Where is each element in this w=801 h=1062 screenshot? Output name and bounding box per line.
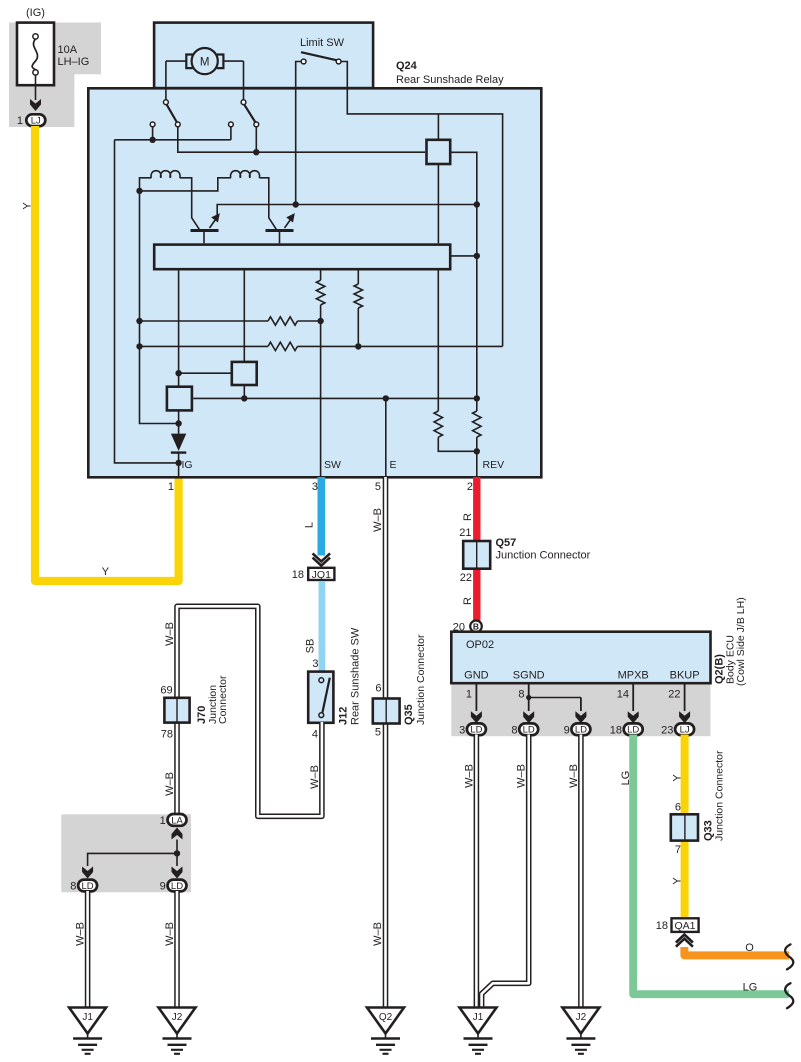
svg-text:W–B: W–B xyxy=(372,922,384,946)
svg-text:R: R xyxy=(462,597,474,605)
svg-text:Junction Connector: Junction Connector xyxy=(714,750,726,841)
svg-text:E: E xyxy=(390,459,397,471)
svg-text:GND: GND xyxy=(464,670,489,682)
svg-text:L: L xyxy=(304,522,316,528)
svg-text:R: R xyxy=(462,513,474,521)
svg-text:14: 14 xyxy=(617,689,629,701)
svg-text:LJ: LJ xyxy=(680,725,690,736)
svg-text:W–B: W–B xyxy=(309,765,321,789)
svg-text:18: 18 xyxy=(292,569,304,581)
svg-text:M: M xyxy=(200,56,210,68)
svg-text:9: 9 xyxy=(160,881,166,893)
svg-text:W–B: W–B xyxy=(164,622,176,646)
svg-text:BKUP: BKUP xyxy=(670,670,700,682)
svg-text:LD: LD xyxy=(470,725,482,736)
svg-text:JQ1: JQ1 xyxy=(312,569,331,581)
svg-text:QA1: QA1 xyxy=(674,920,695,932)
svg-text:5: 5 xyxy=(375,481,381,493)
svg-text:Q57: Q57 xyxy=(496,537,517,549)
svg-text:(Cowl Side J/B LH): (Cowl Side J/B LH) xyxy=(735,597,747,686)
svg-text:1: 1 xyxy=(466,689,472,701)
svg-text:3: 3 xyxy=(312,658,318,670)
svg-text:LJ: LJ xyxy=(31,116,41,127)
svg-text:J2: J2 xyxy=(576,1012,587,1023)
svg-text:LD: LD xyxy=(523,725,535,736)
svg-text:Q24: Q24 xyxy=(396,60,418,72)
svg-text:18: 18 xyxy=(656,920,668,932)
svg-text:3: 3 xyxy=(459,724,465,736)
svg-text:Rear Sunshade Relay: Rear Sunshade Relay xyxy=(396,74,504,86)
svg-text:Limit SW: Limit SW xyxy=(300,37,345,49)
svg-text:Y: Y xyxy=(671,877,683,885)
svg-text:LD: LD xyxy=(575,725,587,736)
svg-text:J1: J1 xyxy=(82,1012,93,1023)
svg-text:Q2: Q2 xyxy=(379,1012,393,1023)
svg-text:LG: LG xyxy=(620,771,632,786)
svg-text:1: 1 xyxy=(168,481,174,493)
svg-text:W–B: W–B xyxy=(568,764,580,788)
svg-text:J1: J1 xyxy=(473,1012,484,1023)
svg-text:B: B xyxy=(473,622,479,632)
svg-text:W–B: W–B xyxy=(164,922,176,946)
svg-text:LD: LD xyxy=(171,881,183,892)
svg-text:8: 8 xyxy=(511,724,517,736)
svg-text:REV: REV xyxy=(483,459,505,471)
svg-text:9: 9 xyxy=(564,724,570,736)
svg-text:W–B: W–B xyxy=(75,922,87,946)
svg-text:2: 2 xyxy=(467,481,473,493)
svg-text:78: 78 xyxy=(161,729,173,741)
svg-text:22: 22 xyxy=(460,572,472,584)
svg-text:23: 23 xyxy=(661,724,673,736)
svg-text:IG: IG xyxy=(182,459,193,471)
svg-text:OP02: OP02 xyxy=(466,639,494,651)
svg-text:O: O xyxy=(745,942,754,954)
svg-text:W–B: W–B xyxy=(164,772,176,796)
svg-text:69: 69 xyxy=(160,685,172,697)
svg-text:SB: SB xyxy=(305,639,317,654)
svg-text:7: 7 xyxy=(675,844,681,856)
svg-text:Rear Sunshade SW: Rear Sunshade SW xyxy=(350,627,362,725)
svg-text:SGND: SGND xyxy=(513,670,545,682)
svg-text:6: 6 xyxy=(675,802,681,814)
svg-text:Q35: Q35 xyxy=(403,704,415,725)
svg-text:Y: Y xyxy=(22,202,34,210)
svg-text:18: 18 xyxy=(610,724,622,736)
svg-text:8: 8 xyxy=(70,881,76,893)
svg-text:Junction Connector: Junction Connector xyxy=(496,550,591,562)
svg-text:1: 1 xyxy=(160,815,166,827)
svg-text:LG: LG xyxy=(743,982,758,994)
svg-text:W–B: W–B xyxy=(516,764,528,788)
svg-text:LD: LD xyxy=(82,881,94,892)
svg-text:LA: LA xyxy=(171,815,183,826)
svg-text:1: 1 xyxy=(17,115,23,127)
svg-text:3: 3 xyxy=(312,481,318,493)
svg-text:8: 8 xyxy=(518,689,524,701)
svg-text:SW: SW xyxy=(324,459,341,471)
svg-text:W–B: W–B xyxy=(463,764,475,788)
svg-text:LH–IG: LH–IG xyxy=(58,56,90,68)
svg-text:W–B: W–B xyxy=(372,508,384,532)
svg-text:10A: 10A xyxy=(58,44,78,56)
svg-text:21: 21 xyxy=(459,527,471,539)
svg-text:J12: J12 xyxy=(338,707,350,725)
svg-text:4: 4 xyxy=(312,729,318,741)
svg-text:Junction Connector: Junction Connector xyxy=(415,634,427,725)
svg-text:Y: Y xyxy=(671,774,683,782)
svg-text:Y: Y xyxy=(102,566,110,578)
svg-text:LD: LD xyxy=(627,725,639,736)
svg-text:Connector: Connector xyxy=(217,675,229,724)
svg-text:22: 22 xyxy=(668,689,680,701)
svg-text:J2: J2 xyxy=(172,1012,183,1023)
svg-text:6: 6 xyxy=(375,683,381,695)
svg-text:MPXB: MPXB xyxy=(618,670,649,682)
svg-text:(IG): (IG) xyxy=(26,7,45,19)
svg-text:5: 5 xyxy=(375,727,381,739)
